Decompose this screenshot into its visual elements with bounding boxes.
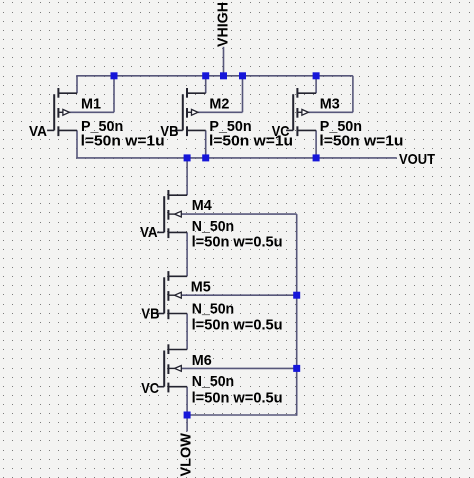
transistor M2 (PMOS P_50n)	[176, 88, 243, 136]
svg-text:N_50n: N_50n	[192, 300, 234, 317]
svg-text:N_50n: N_50n	[192, 373, 234, 390]
wire M4-M5 link	[186, 232, 188, 276]
transistor M5 (NMOS N_50n)	[157, 271, 187, 319]
svg-text:VC: VC	[272, 123, 290, 140]
svg-text:VOUT: VOUT	[399, 151, 435, 168]
svg-text:M4: M4	[192, 197, 213, 214]
svg-text:l=50n w=0.5u: l=50n w=0.5u	[192, 234, 283, 251]
wire M3 drain drop	[315, 130, 317, 158]
junction node 9	[293, 292, 300, 299]
wire VHIGH stem	[223, 47, 225, 76]
wire M5-M6 link	[186, 314, 188, 350]
wire M1 drain drop	[76, 130, 78, 158]
transistor M4 (NMOS N_50n)	[157, 190, 187, 238]
junction node 3	[220, 72, 227, 79]
svg-text:M2: M2	[209, 96, 229, 113]
junction node 1	[111, 72, 118, 79]
wire M6 source drop	[186, 387, 188, 415]
svg-text:VLOW: VLOW	[177, 432, 194, 476]
svg-text:VA: VA	[140, 224, 158, 241]
svg-text:VA: VA	[29, 123, 47, 140]
junction node 7	[202, 154, 209, 161]
svg-text:l=50n w=1u: l=50n w=1u	[319, 133, 403, 150]
svg-text:l=50n w=0.5u: l=50n w=0.5u	[192, 317, 283, 334]
wire M3 bulk riser	[352, 76, 354, 113]
junction node 5	[313, 72, 320, 79]
wire M4 bulk lead	[181, 213, 296, 215]
junction node 2	[202, 72, 209, 79]
wire M1 source riser	[76, 76, 78, 93]
wire M5 bulk lead	[181, 294, 296, 296]
transistor M3 (PMOS P_50n)	[286, 88, 353, 136]
transistor M6 (NMOS N_50n)	[157, 344, 187, 392]
svg-text:VB: VB	[141, 305, 159, 322]
junction node 6	[184, 154, 191, 161]
transistor M1 (PMOS P_50n)	[47, 88, 114, 136]
svg-text:VC: VC	[141, 380, 159, 397]
wire bottom bulk return	[187, 414, 297, 416]
svg-text:N_50n: N_50n	[192, 218, 234, 235]
svg-text:M1: M1	[81, 96, 101, 113]
svg-text:M6: M6	[192, 352, 212, 369]
svg-text:VHIGH: VHIGH	[214, 2, 231, 47]
wire M6 bulk lead	[181, 367, 296, 369]
svg-text:l=50n w=1u: l=50n w=1u	[81, 133, 165, 150]
wire M2 bulk riser	[242, 76, 244, 113]
wire M3 source riser	[315, 76, 317, 93]
junction node 8	[313, 154, 320, 161]
svg-text:VB: VB	[160, 123, 178, 140]
svg-text:M5: M5	[191, 279, 211, 296]
wire M2 source riser	[205, 76, 207, 93]
wire M4 drain riser	[186, 158, 188, 195]
wire M1 bulk riser	[113, 76, 115, 113]
wire VLOW stem	[186, 415, 188, 432]
svg-text:l=50n w=0.5u: l=50n w=0.5u	[192, 390, 283, 407]
wire right bulk bus	[296, 214, 298, 416]
junction node 4	[239, 72, 246, 79]
wire top VHIGH rail	[76, 75, 353, 77]
junction node 11	[184, 412, 191, 419]
wire VOUT rail	[76, 157, 397, 159]
junction node 10	[293, 365, 300, 372]
wire M2 drain drop	[205, 130, 207, 158]
svg-text:M3: M3	[320, 96, 340, 113]
